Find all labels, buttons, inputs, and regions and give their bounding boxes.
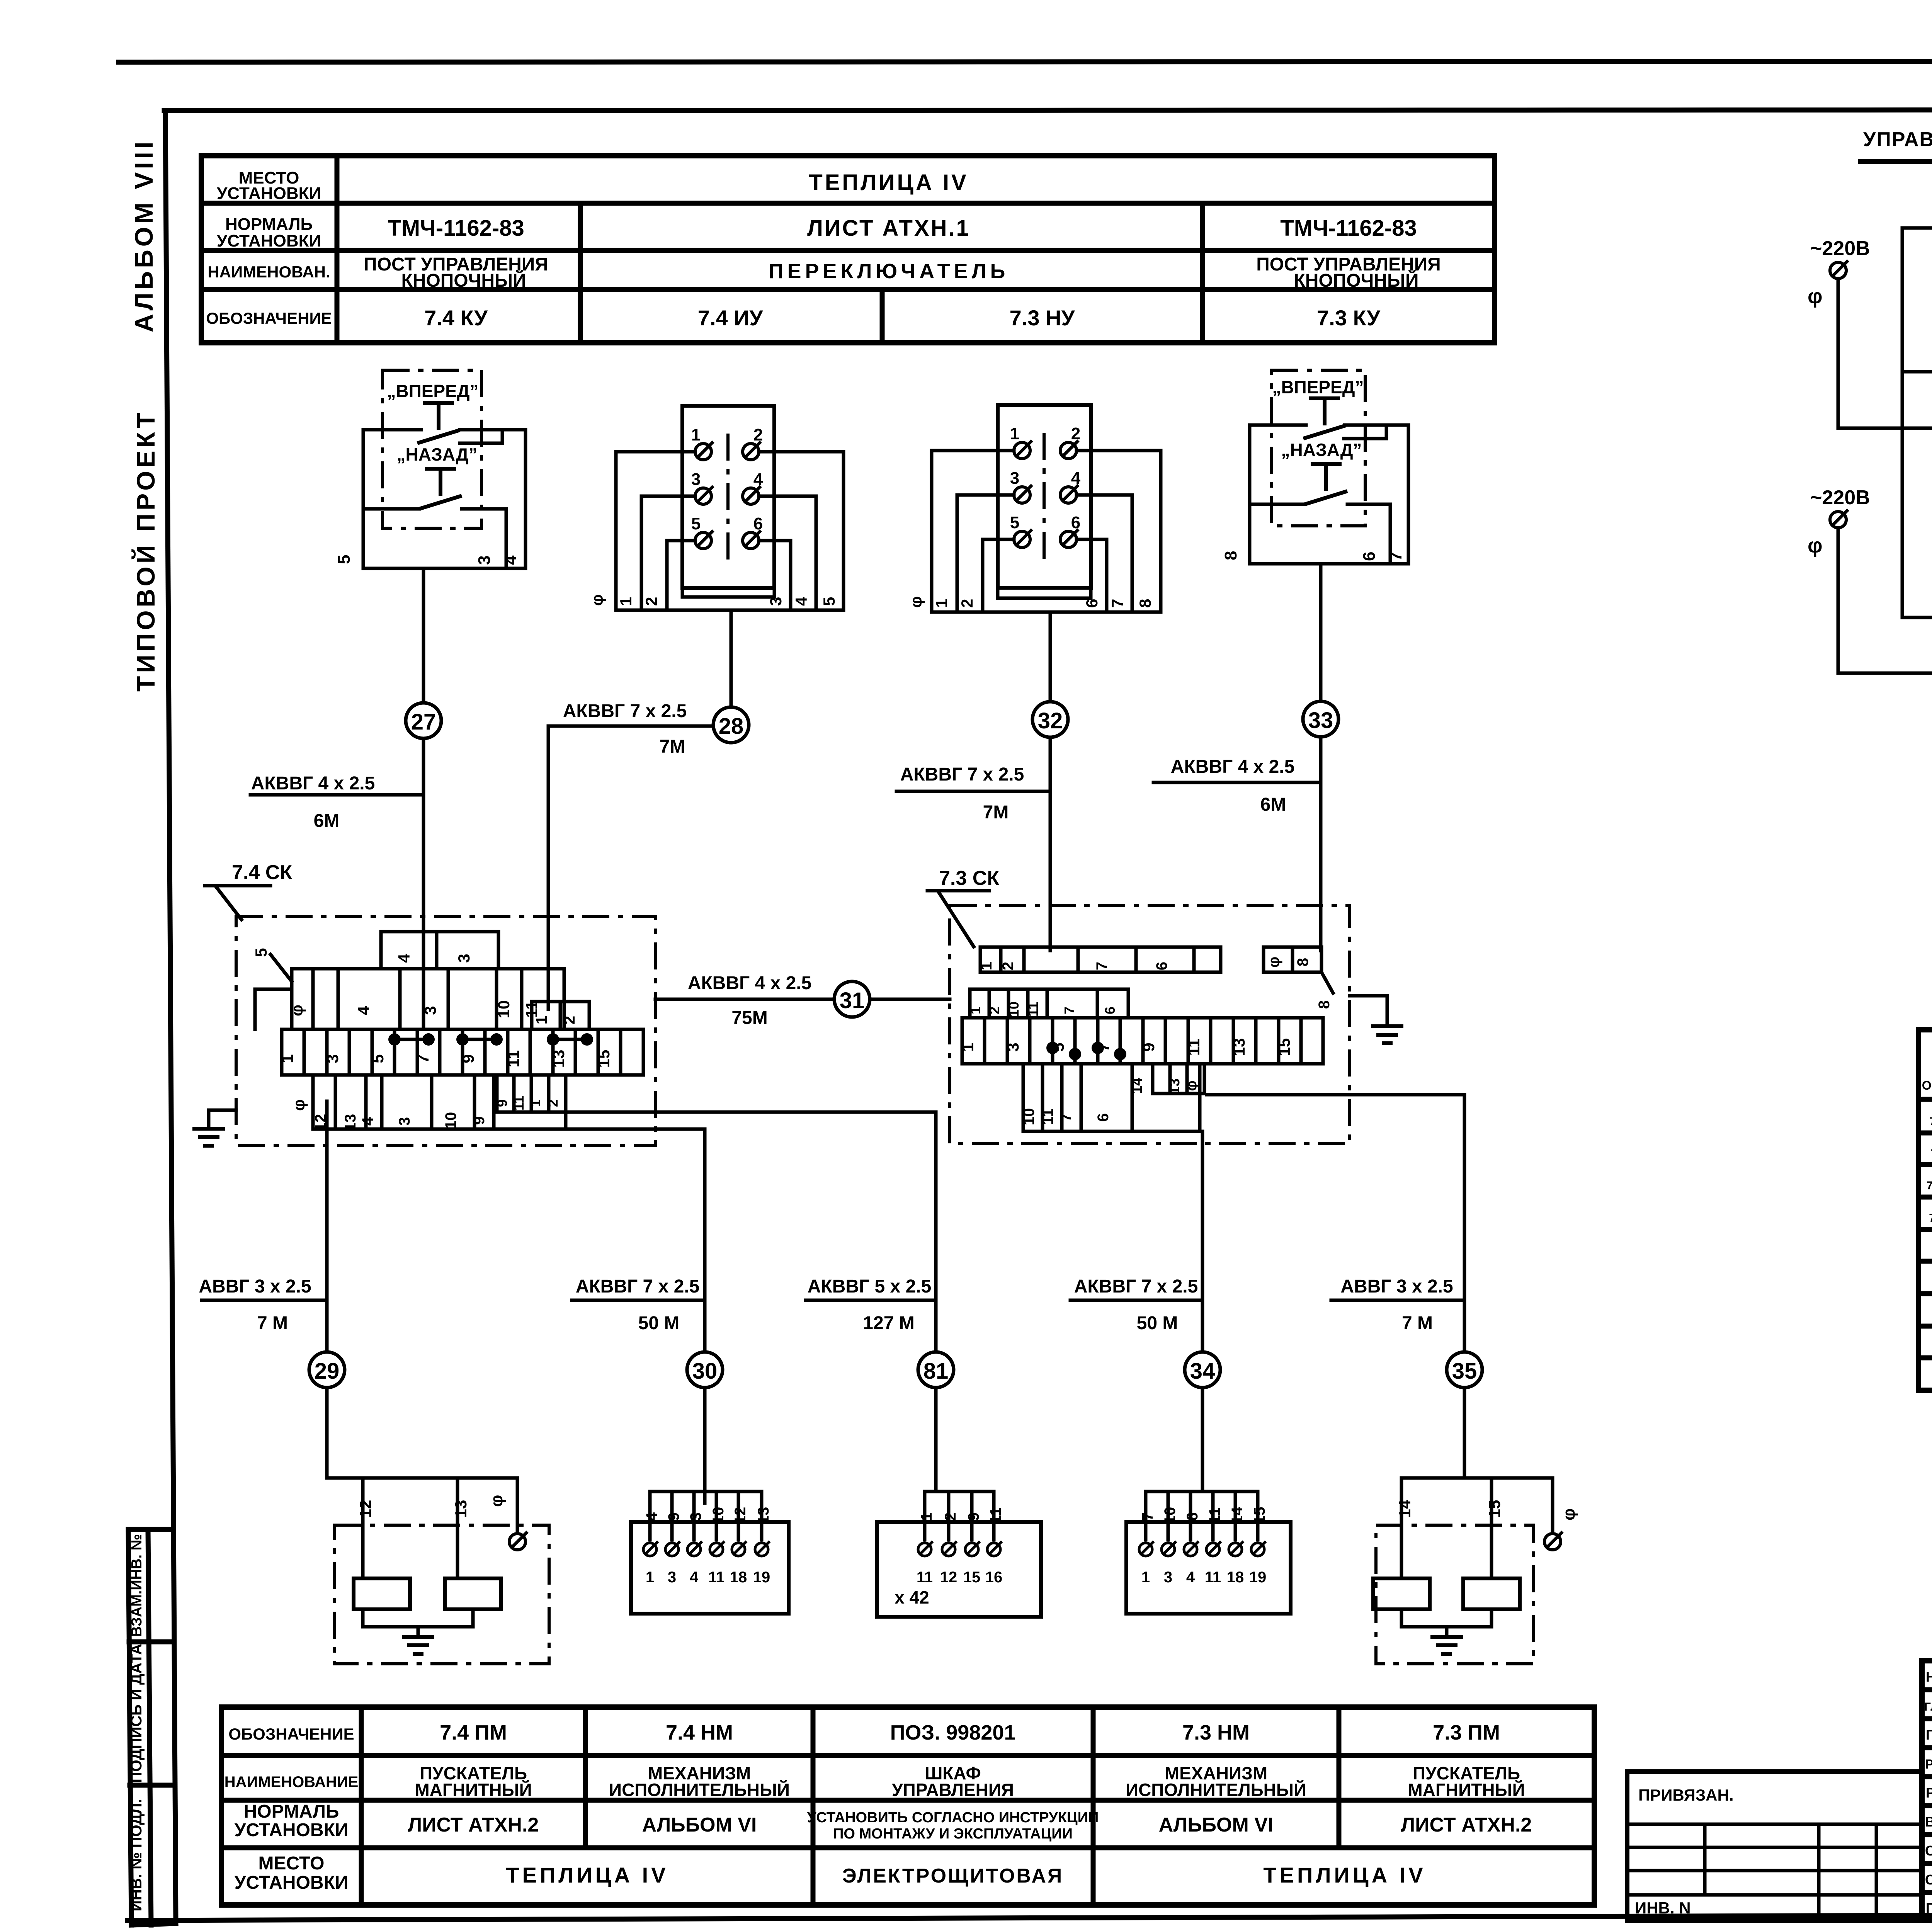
svg-text:1: 1 (646, 1569, 654, 1586)
svg-text:СТ.ИНЖ.: СТ.ИНЖ. (1925, 1843, 1932, 1859)
svg-text:1: 1 (691, 425, 701, 444)
svg-text:2: 2 (642, 597, 660, 606)
svg-text:ЛИСТ АТХН.2: ЛИСТ АТХН.2 (1401, 1814, 1532, 1836)
svg-text:ИНВ. N: ИНВ. N (1635, 1899, 1691, 1917)
svg-text:11: 11 (1206, 1507, 1223, 1524)
svg-text:7.3 НМ: 7.3 НМ (1182, 1721, 1250, 1744)
lower channels 7.3SK (1020, 1064, 1204, 1131)
svg-text:3: 3 (475, 556, 494, 565)
svg-text:ОБОЗНАЧЕНИЕ: ОБОЗНАЧЕНИЕ (228, 1725, 354, 1743)
svg-text:3: 3 (396, 1117, 413, 1126)
svg-text:КНОПОЧНЫЙ: КНОПОЧНЫЙ (1294, 270, 1418, 291)
svg-text:1: 1 (978, 962, 995, 970)
svg-text:φ: φ (1265, 957, 1282, 968)
svg-text:φ: φ (1808, 285, 1823, 308)
svg-text:1: 1 (959, 1043, 977, 1051)
svg-text:11: 11 (708, 1569, 724, 1586)
svg-text:29: 29 (315, 1359, 340, 1384)
svg-text:НОРМАЛЬ: НОРМАЛЬ (244, 1801, 339, 1822)
svg-text:„ВПЕРЕД”: „ВПЕРЕД” (387, 381, 478, 401)
svg-text:„НАЗАД”: „НАЗАД” (1281, 440, 1362, 460)
svg-text:3: 3 (767, 597, 785, 606)
svg-text:3: 3 (323, 1054, 342, 1063)
svg-text:4: 4 (1186, 1569, 1195, 1586)
wire 34 (1201, 1131, 1204, 1490)
svg-text:ПО МОНТАЖУ И ЭКСПЛУАТАЦИИ: ПО МОНТАЖУ И ЭКСПЛУАТАЦИИ (833, 1826, 1073, 1842)
svg-text:11: 11 (987, 1507, 1004, 1524)
svg-text:АКВВГ 7 х 2.5: АКВВГ 7 х 2.5 (900, 764, 1024, 785)
svg-text:2: 2 (1071, 424, 1080, 443)
pushbutton post 7.4KU (branch 27) (335, 370, 526, 568)
svg-text:14: 14 (1229, 1507, 1246, 1524)
svg-text:2: 2 (942, 1512, 959, 1521)
svg-text:φ: φ (288, 1005, 306, 1016)
svg-text:7: 7 (1061, 1007, 1077, 1014)
svg-text:УПРАВЛЕНИЕ ЭЛЕКТРОПРИВОДАМИ ТЕ: УПРАВЛЕНИЕ ЭЛЕКТРОПРИВОДАМИ ТЕПЛОЗАЩИТНО… (1863, 128, 1932, 151)
svg-text:8: 8 (1136, 599, 1154, 608)
cable label AKVVG 7x2.5 7m (32) (896, 764, 1050, 823)
svg-text:35: 35 (1452, 1359, 1477, 1384)
svg-text:4: 4 (690, 1569, 699, 1586)
svg-text:1: 1 (617, 597, 635, 606)
cable label AKVVG 4x2.5 6m (250, 773, 423, 831)
svg-text:9: 9 (494, 1099, 510, 1107)
svg-text:7.4 НМ: 7.4 НМ (666, 1721, 733, 1744)
svg-text:1: 1 (533, 1016, 550, 1024)
svg-text:2: 2 (986, 1007, 1002, 1014)
svg-text:φ: φ (588, 594, 606, 606)
svg-text:1: 1 (932, 599, 951, 608)
svg-text:АЛЬБОМ VI: АЛЬБОМ VI (642, 1814, 757, 1836)
node 27 (406, 703, 441, 738)
upper channels 7.4SK (252, 932, 589, 1029)
svg-text:ТЕПЛИЦА IV: ТЕПЛИЦА IV (809, 170, 968, 195)
svg-text:9: 9 (459, 1054, 477, 1063)
svg-text:ПОДПИСЬ И ДАТА: ПОДПИСЬ И ДАТА (128, 1644, 145, 1783)
svg-text:УСТАНОВИТЬ СОГЛАСНО ИНСТРУКЦИИ: УСТАНОВИТЬ СОГЛАСНО ИНСТРУКЦИИ (807, 1810, 1099, 1826)
svg-text:7: 7 (1058, 1113, 1075, 1122)
svg-text:9: 9 (1139, 1043, 1158, 1051)
svg-text:6: 6 (1153, 962, 1170, 970)
svg-text:6М: 6М (314, 811, 340, 831)
svg-text:6: 6 (753, 514, 763, 533)
svg-text:~220В: ~220В (1810, 237, 1870, 260)
node 32 (1032, 702, 1068, 737)
svg-text:14: 14 (1396, 1500, 1414, 1518)
svg-text:1: 1 (918, 1512, 935, 1521)
svg-text:УПРАВЛЕНИЯ: УПРАВЛЕНИЯ (892, 1780, 1014, 1800)
lower channels 7.4SK (290, 1075, 566, 1131)
svg-text:50 М: 50 М (638, 1313, 680, 1333)
svg-text:19: 19 (1249, 1569, 1267, 1586)
svg-text:81: 81 (923, 1359, 949, 1384)
svg-text:1: 1 (278, 1054, 296, 1063)
svg-text:МАГНИТНЫЙ: МАГНИТНЫЙ (1408, 1780, 1525, 1800)
svg-text:ТИПОВОЙ ПРОЕКТ: ТИПОВОЙ ПРОЕКТ (131, 410, 160, 692)
album vertical captions (129, 139, 160, 692)
svg-text:ПОЗ. 998201: ПОЗ. 998201 (890, 1721, 1016, 1744)
svg-text:10: 10 (495, 1000, 513, 1019)
svg-text:9: 9 (471, 1116, 488, 1125)
svg-text:13: 13 (452, 1500, 470, 1518)
svg-text:РУК.ГР.: РУК.ГР. (1926, 1785, 1932, 1801)
svg-text:2: 2 (1000, 962, 1017, 970)
svg-text:15: 15 (1251, 1507, 1268, 1524)
svg-text:2: 2 (545, 1099, 561, 1107)
svg-text:34: 34 (1190, 1359, 1215, 1384)
svg-text:30: 30 (692, 1359, 718, 1384)
wire 32 (1049, 612, 1052, 951)
svg-text:АВВГ 3 х 2.5: АВВГ 3 х 2.5 (1340, 1276, 1453, 1297)
svg-text:ВЗАМ.ИНВ. №: ВЗАМ.ИНВ. № (129, 1534, 145, 1637)
svg-text:~220В: ~220В (1810, 486, 1870, 509)
svg-text:АЛЬБОМ VIII: АЛЬБОМ VIII (129, 139, 158, 332)
svg-text:ИНВ. № ПОДЛ.: ИНВ. № ПОДЛ. (128, 1799, 145, 1911)
svg-text:7: 7 (1108, 599, 1126, 608)
svg-text:СТ.ТЕХН.: СТ.ТЕХН. (1925, 1872, 1932, 1888)
svg-text:5: 5 (335, 555, 354, 564)
svg-text:ГЛ.СПЕЦ.ОТД: ГЛ.СПЕЦ.ОТД (1924, 1701, 1932, 1713)
svg-text:4: 4 (753, 470, 763, 489)
junction box 7.4SK (192, 861, 950, 1146)
bottom cable branches (199, 1095, 1482, 1503)
svg-text:ПЕРЕКЛЮЧАТЕЛЬ: ПЕРЕКЛЮЧАТЕЛЬ (769, 260, 1009, 283)
svg-text:13: 13 (549, 1050, 568, 1068)
svg-text:φ: φ (1560, 1509, 1578, 1520)
svg-text:6: 6 (1083, 599, 1101, 608)
svg-text:14: 14 (1129, 1078, 1145, 1094)
svg-text:7М: 7М (660, 736, 685, 757)
svg-text:ТЕПЛИЦА IV: ТЕПЛИЦА IV (506, 1863, 668, 1887)
packet switch 7.3IU (branch 32) (907, 405, 1161, 612)
svg-text:„НАЗАД”: „НАЗАД” (397, 444, 478, 464)
title block (1627, 1661, 1932, 1922)
svg-text:3: 3 (668, 1569, 676, 1586)
svg-text:32: 32 (1038, 708, 1063, 733)
svg-text:7.3ИУ,7.4ИУ: 7.3ИУ,7.4ИУ (1930, 1115, 1932, 1128)
svg-text:6: 6 (1184, 1512, 1201, 1521)
svg-text:3: 3 (421, 1006, 439, 1015)
svg-text:2: 2 (753, 425, 763, 444)
svg-text:28: 28 (719, 714, 744, 739)
svg-text:4: 4 (359, 1117, 376, 1126)
svg-text:3: 3 (455, 954, 473, 963)
svg-text:9: 9 (965, 1512, 982, 1521)
top-left table (201, 156, 1495, 343)
ground 7.4SK (209, 1110, 236, 1119)
svg-text:АКВВГ 4 х 2.5: АКВВГ 4 х 2.5 (1171, 757, 1295, 777)
svg-text:ОБОЗНАЧЕН.: ОБОЗНАЧЕН. (1922, 1078, 1932, 1092)
svg-text:11: 11 (1025, 1002, 1041, 1017)
svg-text:АКВВГ 4 х 2.5: АКВВГ 4 х 2.5 (688, 973, 812, 993)
svg-text:7.3 НУ: 7.3 НУ (1010, 306, 1075, 330)
svg-text:6М: 6М (1260, 794, 1286, 815)
svg-text:13: 13 (1230, 1038, 1248, 1056)
svg-text:КНОПОЧНЫЙ: КНОПОЧНЫЙ (401, 270, 526, 291)
svg-text:ЭЛЕКТРОЩИТОВАЯ: ЭЛЕКТРОЩИТОВАЯ (842, 1865, 1064, 1887)
svg-text:7.3 КУ: 7.3 КУ (1317, 306, 1381, 330)
svg-text:7: 7 (1094, 962, 1111, 970)
svg-text:27: 27 (411, 709, 436, 735)
svg-text:ПРИВЯЗАН.: ПРИВЯЗАН. (1638, 1786, 1734, 1804)
svg-text:10: 10 (1020, 1108, 1037, 1126)
svg-text:φ: φ (487, 1495, 506, 1507)
svg-text:2: 2 (561, 1016, 578, 1024)
junction box 7.3SK (927, 867, 1403, 1144)
left margin strip (128, 1529, 131, 1925)
wire 28 (730, 610, 733, 707)
svg-text:НАИМЕНОВАН.: НАИМЕНОВАН. (207, 263, 330, 281)
svg-text:МЕСТО: МЕСТО (259, 1853, 325, 1874)
svg-text:19: 19 (753, 1569, 770, 1586)
svg-text:1: 1 (527, 1099, 543, 1107)
wire 8 (1838, 672, 1932, 675)
svg-text:11: 11 (1185, 1039, 1203, 1056)
node 28 (713, 707, 749, 743)
svg-text:МАГНИТНЫЙ: МАГНИТНЫЙ (415, 1780, 532, 1800)
wire 27 (422, 568, 425, 969)
drawing frame (164, 110, 1932, 111)
svg-text:ПРОВЕР.: ПРОВЕР. (1926, 1900, 1932, 1916)
svg-text:УСТАНОВКИ: УСТАНОВКИ (235, 1820, 349, 1840)
svg-text:УСТАНОВКИ: УСТАНОВКИ (235, 1872, 349, 1893)
svg-text:АЛЬБОМ VI: АЛЬБОМ VI (1159, 1814, 1274, 1836)
svg-text:φ: φ (907, 596, 925, 608)
svg-text:ТЕПЛИЦА IV: ТЕПЛИЦА IV (1263, 1863, 1426, 1887)
svg-text:ЛИСТ АТХН.2: ЛИСТ АТХН.2 (408, 1814, 539, 1836)
svg-text:ОБОЗНАЧЕНИЕ: ОБОЗНАЧЕНИЕ (206, 309, 332, 327)
magnetic starter 7.3PM (bottom right) (1373, 1478, 1578, 1664)
svg-text:12: 12 (732, 1507, 749, 1524)
svg-text:6: 6 (1095, 1113, 1112, 1122)
bottom-left table (221, 1707, 1594, 1905)
wire 5 (1838, 427, 1932, 430)
svg-text:7.3СК,7.4СК: 7.3СК,7.4СК (1929, 1212, 1932, 1225)
svg-text:7.4 КУ: 7.4 КУ (424, 306, 488, 330)
svg-text:8: 8 (1316, 1000, 1333, 1009)
svg-text:31: 31 (840, 988, 865, 1013)
svg-text:7.3ПМ,7.4ПМ: 7.3ПМ,7.4ПМ (1927, 1179, 1932, 1192)
svg-text:4: 4 (1071, 469, 1081, 488)
wire to node 31 (655, 998, 834, 1001)
wire 1 (1902, 228, 1932, 617)
svg-text:18: 18 (1227, 1569, 1244, 1586)
svg-text:5: 5 (252, 948, 270, 957)
svg-text:6: 6 (1102, 1007, 1118, 1014)
wire 81 (566, 1112, 936, 1490)
svg-text:10: 10 (1006, 1002, 1022, 1017)
svg-text:ИСПОЛНИТЕЛЬНЫЙ: ИСПОЛНИТЕЛЬНЫЙ (1126, 1780, 1306, 1800)
parts table (1918, 1030, 1932, 1390)
svg-text:2: 2 (958, 599, 976, 608)
svg-text:ГИП: ГИП (1926, 1727, 1932, 1743)
upper channels 7.3SK (968, 947, 1333, 1018)
svg-text:„ВПЕРЕД”: „ВПЕРЕД” (1272, 377, 1364, 397)
wire 30 (343, 1129, 705, 1503)
svg-text:13: 13 (1167, 1078, 1183, 1095)
cable label AKVVG 4x2.5 6m (33) (1153, 757, 1321, 815)
svg-text:7.3 СК: 7.3 СК (939, 867, 999, 889)
svg-text:1: 1 (968, 1007, 983, 1014)
svg-text:3: 3 (687, 1512, 704, 1521)
svg-text:4: 4 (395, 954, 413, 963)
svg-text:7.3 ПМ: 7.3 ПМ (1433, 1721, 1500, 1744)
svg-text:7: 7 (1386, 552, 1405, 561)
terminal strip 7.3SK (959, 1018, 1323, 1064)
svg-text:φ: φ (1808, 534, 1823, 557)
svg-text:7.4 ПМ: 7.4 ПМ (440, 1721, 507, 1744)
svg-text:1: 1 (1010, 424, 1019, 443)
svg-text:12: 12 (356, 1500, 374, 1518)
AC source ~220V (lower) (1808, 486, 1870, 673)
cable label AKVVG 7x2.5 7m (548, 701, 713, 1009)
svg-text:Н.КОНТР.: Н.КОНТР. (1926, 1669, 1932, 1685)
svg-text:18: 18 (730, 1569, 747, 1586)
svg-text:11: 11 (917, 1569, 933, 1586)
svg-text:11: 11 (1039, 1109, 1056, 1125)
packet switch 7.4IU (branch 28) (588, 406, 844, 610)
svg-text:7.4 ИУ: 7.4 ИУ (698, 306, 764, 330)
svg-text:3: 3 (1010, 469, 1019, 488)
AC source ~220V (upper) (1808, 237, 1870, 428)
svg-text:10: 10 (710, 1507, 727, 1524)
svg-text:ВЕД.ИНЖ: ВЕД.ИНЖ (1925, 1814, 1932, 1830)
svg-text:13: 13 (755, 1507, 772, 1524)
svg-text:АКВВГ 4 х 2.5: АКВВГ 4 х 2.5 (251, 773, 375, 794)
svg-text:11: 11 (504, 1050, 522, 1067)
svg-text:АВВГ 3 х 2.5: АВВГ 3 х 2.5 (199, 1276, 311, 1297)
node 31 (834, 981, 870, 1017)
svg-text:7М: 7М (983, 802, 1009, 823)
svg-text:75М: 75М (731, 1008, 767, 1028)
wire 35 (1207, 1095, 1464, 1478)
svg-text:АКВВГ 7 х 2.5: АКВВГ 7 х 2.5 (1074, 1276, 1198, 1297)
svg-text:7 М: 7 М (257, 1313, 288, 1333)
ground 7.3SK (1350, 996, 1387, 1016)
svg-text:16: 16 (985, 1569, 1003, 1586)
svg-text:11: 11 (511, 1096, 527, 1111)
pushbutton post 7.3KU (branch 33) (1221, 370, 1408, 564)
svg-text:15: 15 (595, 1050, 613, 1068)
svg-text:5: 5 (691, 514, 701, 533)
svg-text:УСТАНОВКИ: УСТАНОВКИ (217, 184, 321, 203)
svg-text:УСТАНОВКИ: УСТАНОВКИ (217, 231, 321, 250)
svg-text:АКВВГ 7 х 2.5: АКВВГ 7 х 2.5 (563, 701, 687, 721)
svg-text:5: 5 (820, 597, 838, 606)
wire 4 (1902, 372, 1932, 488)
magnetic starter 7.4PM (bottom left) (327, 1478, 549, 1664)
svg-text:127 М: 127 М (863, 1313, 914, 1333)
svg-text:ЛИСТ АТХН.1: ЛИСТ АТХН.1 (807, 216, 970, 241)
svg-text:5: 5 (369, 1054, 387, 1063)
svg-text:33: 33 (1308, 708, 1333, 733)
svg-text:НОРМАЛЬ: НОРМАЛЬ (225, 215, 313, 234)
svg-text:5: 5 (1010, 513, 1019, 532)
connector block x42 (branch 81) (877, 1492, 1041, 1617)
svg-text:3: 3 (1004, 1043, 1022, 1051)
svg-text:7.4 СК: 7.4 СК (232, 861, 292, 884)
svg-text:АКВВГ 5 х 2.5: АКВВГ 5 х 2.5 (808, 1276, 932, 1297)
wire 29 (325, 1101, 329, 1478)
svg-text:15: 15 (963, 1569, 981, 1586)
svg-text:4: 4 (792, 597, 810, 606)
svg-text:8: 8 (1221, 551, 1240, 560)
svg-text:АКВВГ 7 х 2.5: АКВВГ 7 х 2.5 (576, 1276, 700, 1297)
svg-text:7 М: 7 М (1402, 1313, 1433, 1333)
svg-text:1: 1 (1141, 1569, 1150, 1586)
svg-text:6: 6 (1071, 513, 1080, 532)
svg-text:7.3КУ,7.4КУ: 7.3КУ,7.4КУ (1930, 1147, 1932, 1160)
svg-text:φ: φ (290, 1099, 308, 1111)
svg-text:ТМЧ-1162-83: ТМЧ-1162-83 (388, 216, 524, 241)
connector block (branch 30) (631, 1492, 789, 1614)
svg-text:3: 3 (1164, 1569, 1172, 1586)
svg-text:50 М: 50 М (1137, 1313, 1178, 1333)
svg-text:10: 10 (1162, 1507, 1179, 1524)
node 33 (1303, 701, 1338, 737)
svg-text:4: 4 (354, 1006, 372, 1015)
svg-text:15: 15 (1485, 1500, 1503, 1518)
svg-text:12: 12 (940, 1569, 957, 1586)
wire 33 (1319, 564, 1323, 951)
svg-text:3: 3 (691, 470, 701, 489)
svg-text:ИСПОЛНИТЕЛЬНЫЙ: ИСПОЛНИТЕЛЬНЫЙ (609, 1780, 790, 1800)
terminal strip 7.4SK (278, 1029, 643, 1075)
wire 7 (1902, 617, 1932, 707)
left extension of title block (1627, 1772, 1922, 1920)
svg-text:10: 10 (442, 1112, 459, 1129)
svg-text:15: 15 (1275, 1038, 1293, 1056)
svg-text:РУК.СЕКТ.: РУК.СЕКТ. (1925, 1757, 1932, 1772)
svg-text:7: 7 (1139, 1512, 1156, 1521)
svg-text:8: 8 (1294, 958, 1311, 966)
svg-text:11: 11 (1205, 1569, 1221, 1586)
svg-text:φ: φ (1184, 1080, 1200, 1091)
svg-text:9: 9 (665, 1512, 682, 1521)
svg-text:4: 4 (643, 1512, 660, 1521)
svg-text:НАИМЕНОВАНИЕ: НАИМЕНОВАНИЕ (224, 1774, 359, 1791)
svg-text:7: 7 (414, 1054, 432, 1063)
svg-text:х 42: х 42 (895, 1587, 929, 1607)
connector block (branch 34) (1126, 1492, 1291, 1614)
svg-text:ТМЧ-1162-83: ТМЧ-1162-83 (1280, 216, 1417, 241)
svg-text:4: 4 (501, 555, 520, 565)
svg-text:6: 6 (1360, 552, 1379, 561)
